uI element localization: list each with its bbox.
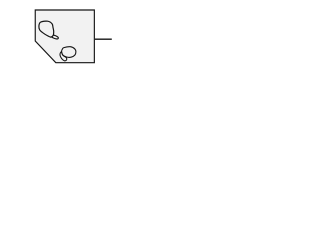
blob tail of balloon E1 (points down-right) <box>51 34 59 39</box>
node U1 body (note-shaped pentagon with cut lower-left corner) <box>35 10 94 63</box>
wire stub from right edge <box>95 38 112 40</box>
blob ellipse E2 (balloon body) <box>62 47 76 58</box>
blob ellipse E1 (balloon body) <box>39 21 54 37</box>
blob tail of balloon E2 (points down-left) <box>60 52 67 61</box>
